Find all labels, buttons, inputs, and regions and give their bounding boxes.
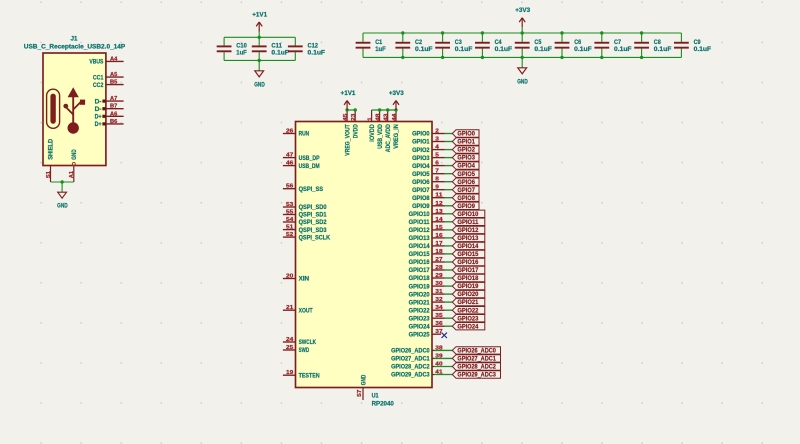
svg-text:GPIO3: GPIO3 — [412, 156, 430, 162]
svg-text:C1: C1 — [375, 40, 383, 46]
svg-text:GPIO27_ADC1: GPIO27_ADC1 — [391, 357, 430, 363]
svg-text:DVDD: DVDD — [353, 124, 359, 139]
svg-text:GND: GND — [72, 149, 78, 160]
svg-text:GPIO7: GPIO7 — [412, 188, 430, 194]
svg-text:C3: C3 — [455, 40, 463, 46]
svg-text:XIN: XIN — [299, 277, 310, 283]
svg-text:QSPI_SD0: QSPI_SD0 — [299, 205, 328, 211]
svg-text:55: 55 — [286, 210, 293, 216]
svg-text:D-: D- — [95, 107, 102, 113]
svg-text:19: 19 — [286, 370, 293, 376]
svg-text:IOVDD: IOVDD — [370, 124, 376, 142]
svg-text:1: 1 — [367, 117, 373, 121]
svg-text:C7: C7 — [614, 40, 622, 46]
svg-text:GPIO22: GPIO22 — [457, 307, 479, 314]
svg-text:GPIO18: GPIO18 — [409, 276, 431, 282]
svg-text:C2: C2 — [415, 40, 423, 46]
svg-text:0.1uF: 0.1uF — [534, 47, 552, 53]
svg-text:GPIO6: GPIO6 — [457, 179, 475, 186]
svg-text:GPIO3: GPIO3 — [457, 155, 475, 162]
svg-text:GPIO27_ADC1: GPIO27_ADC1 — [457, 356, 496, 363]
svg-text:A6: A6 — [110, 111, 117, 117]
svg-text:SWCLK: SWCLK — [299, 340, 317, 346]
svg-text:GPIO12: GPIO12 — [409, 228, 431, 234]
svg-text:C8: C8 — [654, 40, 662, 46]
svg-text:GPIO6: GPIO6 — [412, 180, 430, 186]
svg-text:+1V1: +1V1 — [252, 12, 268, 18]
svg-text:GPIO5: GPIO5 — [412, 172, 430, 178]
svg-text:46: 46 — [286, 161, 293, 167]
svg-text:+3V3: +3V3 — [389, 91, 405, 97]
svg-text:GPIO0: GPIO0 — [457, 131, 475, 138]
svg-text:GPIO16: GPIO16 — [409, 260, 431, 266]
svg-text:GPIO13: GPIO13 — [409, 236, 431, 242]
svg-text:GPIO11: GPIO11 — [457, 219, 479, 226]
svg-text:26: 26 — [286, 129, 293, 135]
svg-text:23: 23 — [351, 114, 357, 121]
svg-text:C6: C6 — [574, 40, 582, 46]
svg-text:GPIO29_ADC3: GPIO29_ADC3 — [457, 372, 496, 379]
svg-text:0.1uF: 0.1uF — [654, 47, 672, 53]
svg-text:GPIO1: GPIO1 — [457, 139, 475, 146]
svg-text:RP2040: RP2040 — [372, 401, 395, 408]
svg-text:SHIELD: SHIELD — [49, 138, 55, 160]
svg-text:ADC_AVDD: ADC_AVDD — [386, 124, 392, 153]
svg-text:20: 20 — [286, 274, 293, 280]
svg-text:57: 57 — [357, 390, 363, 397]
svg-text:GPIO9: GPIO9 — [412, 204, 430, 210]
svg-text:GPIO12: GPIO12 — [457, 227, 479, 234]
svg-text:47: 47 — [286, 153, 293, 159]
svg-text:B5: B5 — [110, 80, 117, 86]
svg-text:0.1uF: 0.1uF — [308, 51, 326, 57]
svg-text:GPIO24: GPIO24 — [457, 323, 479, 330]
svg-text:0.1uF: 0.1uF — [455, 47, 473, 53]
svg-text:A5: A5 — [110, 72, 117, 78]
svg-text:0.1uF: 0.1uF — [271, 51, 289, 57]
svg-text:QSPI_SS: QSPI_SS — [299, 187, 324, 193]
svg-text:USB_DP: USB_DP — [299, 156, 320, 162]
svg-text:44: 44 — [392, 112, 398, 120]
svg-text:52: 52 — [286, 232, 293, 238]
svg-text:D+: D+ — [95, 122, 102, 128]
svg-text:21: 21 — [286, 305, 293, 311]
svg-text:51: 51 — [286, 225, 293, 231]
svg-text:VREG_VOUT: VREG_VOUT — [345, 124, 351, 156]
svg-text:QSPI_SD3: QSPI_SD3 — [299, 228, 328, 234]
svg-text:GPIO8: GPIO8 — [457, 195, 475, 202]
svg-text:45: 45 — [343, 114, 349, 121]
svg-text:GPIO17: GPIO17 — [457, 267, 479, 274]
svg-text:GND: GND — [254, 83, 265, 89]
svg-text:C5: C5 — [534, 40, 542, 46]
svg-text:GPIO26_ADC0: GPIO26_ADC0 — [457, 348, 496, 355]
svg-text:GPIO24: GPIO24 — [409, 324, 431, 330]
svg-text:GPIO21: GPIO21 — [457, 299, 479, 306]
svg-text:GPIO15: GPIO15 — [409, 252, 431, 258]
svg-text:GPIO10: GPIO10 — [457, 211, 479, 218]
svg-text:GPIO0: GPIO0 — [412, 132, 430, 138]
svg-text:GPIO18: GPIO18 — [457, 275, 479, 282]
svg-text:0.1uF: 0.1uF — [574, 47, 592, 53]
svg-text:GPIO28_ADC2: GPIO28_ADC2 — [391, 365, 430, 371]
svg-text:GPIO2: GPIO2 — [457, 147, 475, 154]
svg-text:CC2: CC2 — [93, 83, 104, 89]
svg-text:1uF: 1uF — [236, 51, 247, 57]
svg-text:A4: A4 — [110, 56, 118, 62]
svg-text:GPIO21: GPIO21 — [409, 300, 431, 306]
svg-text:QSPI_SD2: QSPI_SD2 — [299, 220, 328, 226]
svg-text:GND: GND — [57, 204, 68, 210]
svg-text:53: 53 — [286, 202, 293, 208]
svg-text:GPIO23: GPIO23 — [457, 315, 479, 322]
svg-text:C11: C11 — [271, 44, 282, 50]
svg-text:GPIO25: GPIO25 — [409, 332, 431, 338]
svg-text:GPIO26_ADC0: GPIO26_ADC0 — [391, 349, 430, 355]
svg-text:GPIO1: GPIO1 — [412, 140, 430, 146]
svg-text:QSPI_SCLK: QSPI_SCLK — [299, 235, 331, 241]
svg-text:C4: C4 — [495, 40, 503, 46]
svg-text:GPIO15: GPIO15 — [457, 251, 479, 258]
svg-text:SWD: SWD — [299, 348, 310, 354]
svg-text:GPIO5: GPIO5 — [457, 171, 475, 178]
svg-text:43: 43 — [384, 114, 390, 121]
svg-text:USB_VDD: USB_VDD — [378, 124, 384, 149]
svg-text:VREG_IN: VREG_IN — [394, 124, 400, 149]
svg-text:48: 48 — [375, 114, 381, 121]
svg-text:U1: U1 — [372, 392, 379, 399]
svg-text:GPIO4: GPIO4 — [412, 164, 430, 170]
svg-text:GPIO20: GPIO20 — [457, 291, 479, 298]
svg-text:VBUS: VBUS — [89, 60, 103, 66]
svg-text:GPIO19: GPIO19 — [457, 283, 479, 290]
svg-text:TESTEN: TESTEN — [299, 373, 320, 379]
svg-text:A1: A1 — [69, 171, 75, 178]
svg-text:GPIO2: GPIO2 — [412, 148, 430, 154]
svg-text:GPIO13: GPIO13 — [457, 235, 479, 242]
svg-text:+3V3: +3V3 — [515, 8, 531, 14]
svg-text:0.1uF: 0.1uF — [495, 47, 513, 53]
svg-text:GPIO16: GPIO16 — [457, 259, 479, 266]
svg-text:S1: S1 — [46, 171, 52, 178]
svg-text:GPIO4: GPIO4 — [457, 163, 475, 170]
svg-text:RUN: RUN — [299, 132, 310, 138]
svg-text:B7: B7 — [110, 104, 117, 110]
svg-text:GPIO11: GPIO11 — [409, 220, 431, 226]
svg-text:D-: D- — [95, 99, 102, 105]
svg-text:24: 24 — [286, 337, 294, 343]
svg-text:0.1uF: 0.1uF — [614, 47, 632, 53]
svg-text:GPIO22: GPIO22 — [409, 308, 431, 314]
svg-text:GND: GND — [517, 80, 528, 86]
svg-text:CC1: CC1 — [93, 75, 104, 81]
svg-text:GPIO20: GPIO20 — [409, 292, 431, 298]
svg-text:D+: D+ — [95, 115, 102, 121]
svg-text:56: 56 — [286, 184, 293, 190]
svg-text:USB_DM: USB_DM — [299, 164, 320, 170]
svg-text:1uF: 1uF — [375, 47, 386, 53]
svg-text:GPIO23: GPIO23 — [409, 316, 431, 322]
svg-text:GPIO10: GPIO10 — [409, 212, 431, 218]
svg-text:A7: A7 — [110, 96, 117, 102]
svg-text:QSPI_SD1: QSPI_SD1 — [299, 213, 328, 219]
svg-text:0.1uF: 0.1uF — [694, 47, 712, 53]
svg-text:25: 25 — [286, 345, 293, 351]
svg-text:GPIO17: GPIO17 — [409, 268, 431, 274]
svg-text:+1V1: +1V1 — [341, 91, 357, 97]
svg-text:GPIO9: GPIO9 — [457, 203, 475, 210]
svg-text:0.1uF: 0.1uF — [415, 47, 433, 53]
svg-text:GPIO14: GPIO14 — [457, 243, 479, 250]
svg-text:C9: C9 — [694, 40, 702, 46]
svg-text:GPIO19: GPIO19 — [409, 284, 431, 290]
svg-text:GND: GND — [362, 374, 368, 385]
svg-text:54: 54 — [286, 217, 294, 223]
svg-text:GPIO8: GPIO8 — [412, 196, 430, 202]
svg-text:GPIO7: GPIO7 — [457, 187, 475, 194]
svg-text:B6: B6 — [110, 119, 117, 125]
svg-text:GPIO14: GPIO14 — [409, 244, 431, 250]
svg-text:J1: J1 — [71, 36, 79, 42]
svg-text:GPIO29_ADC3: GPIO29_ADC3 — [391, 373, 430, 379]
svg-text:C10: C10 — [236, 44, 247, 50]
svg-text:C12: C12 — [308, 44, 319, 50]
svg-text:XOUT: XOUT — [299, 308, 313, 314]
svg-text:USB_C_Receptacle_USB2.0_14P: USB_C_Receptacle_USB2.0_14P — [24, 44, 126, 50]
svg-text:GPIO28_ADC2: GPIO28_ADC2 — [457, 364, 496, 371]
